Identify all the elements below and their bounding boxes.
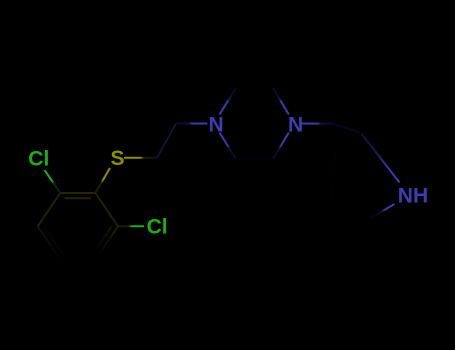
benzene ring C5-C6 inner double-bond line: [45, 227, 64, 255]
piperazine top edge C-C: [236, 87, 273, 89]
svg-text:NH: NH: [398, 185, 428, 208]
pyrrolidine bond C2' to C3': [336, 133, 361, 152]
pyrrolidine bond C5' to C4': [331, 203, 371, 218]
bond chain CH2b to N1: [176, 123, 207, 125]
benzene ring C5-C6 edge: [38, 226, 61, 259]
piperazine bond N1 to C lower-left: [220, 133, 237, 160]
benzene ring C2-C3 edge: [95, 193, 118, 226]
svg-text:Cl: Cl: [147, 215, 168, 238]
benzene ring top edge inner double-bond line: [65, 197, 92, 199]
bond chain CH2a to CH2b: [157, 124, 176, 158]
svg-text:N: N: [288, 114, 303, 137]
bond chain CH2c to pyrrolidine C3': [334, 124, 361, 133]
benzene ring C3-C4 inner double-bond line: [92, 227, 111, 255]
piperazine bond C lower-right to N2: [273, 133, 289, 160]
bond S to chain CH2a: [124, 157, 157, 159]
piperazine bottom edge C-C: [236, 158, 273, 160]
pyrrolidine bond C3' to NH: [361, 133, 400, 183]
benzene ring C1-C2 top edge: [60, 192, 95, 194]
pyrrolidine bond NH to C5': [371, 204, 395, 218]
piperazine bond C upper-right to N2: [273, 88, 289, 115]
piperazine bond N1 to C upper-left: [220, 88, 237, 115]
svg-text:N: N: [209, 114, 224, 137]
pyrrolidine bond C4' to C2': [331, 152, 336, 203]
benzene ring C6-C1 edge: [38, 193, 61, 226]
svg-text:Cl: Cl: [28, 148, 49, 171]
benzene ring C4-C5 bottom edge: [60, 259, 95, 261]
bond S to ring C2: [95, 168, 110, 193]
bond Cl1 to ring C1: [45, 170, 61, 193]
bond N2 to chain CH2c: [301, 123, 334, 125]
bond ring C3 to Cl2: [118, 225, 144, 227]
benzene ring C3-C4 edge: [95, 226, 118, 259]
svg-text:S: S: [111, 147, 125, 170]
